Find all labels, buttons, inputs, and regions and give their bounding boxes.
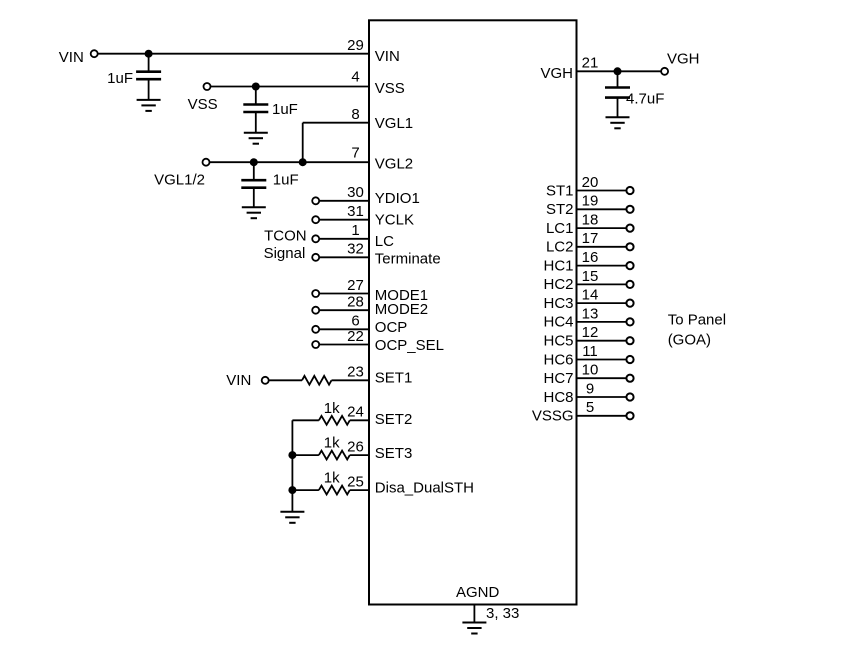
svg-text:19: 19 <box>582 193 599 210</box>
wire AGND to ground <box>473 605 475 623</box>
svg-text:10: 10 <box>582 362 599 379</box>
svg-text:YCLK: YCLK <box>375 212 414 229</box>
pin Terminate label <box>375 251 441 268</box>
label (GOA) <box>668 331 711 348</box>
svg-text:(GOA): (GOA) <box>668 331 711 348</box>
node VGL1/2 terminal <box>203 159 210 166</box>
pin SET1 label <box>375 369 413 386</box>
svg-text:1k: 1k <box>324 470 340 487</box>
pin 25 number <box>347 474 364 491</box>
ground C2 <box>244 133 268 144</box>
svg-text:HC6: HC6 <box>543 351 573 368</box>
wire bus to R3 <box>292 454 319 456</box>
pin VSSG label <box>532 408 574 425</box>
wire pin 10 <box>577 377 627 379</box>
svg-text:4: 4 <box>351 69 359 86</box>
svg-text:30: 30 <box>347 184 364 201</box>
resistor R4 1k <box>319 486 350 495</box>
wire VSS to pin 4 <box>211 86 369 88</box>
svg-text:VGL2: VGL2 <box>375 155 413 172</box>
label VSS <box>188 96 218 113</box>
wire pin 19 <box>577 208 627 210</box>
node pin 22 terminal <box>312 341 319 348</box>
label VGH output <box>667 51 700 68</box>
label To Panel <box>668 312 726 329</box>
pin 3,33 number <box>486 605 519 622</box>
svg-text:HC2: HC2 <box>543 276 573 293</box>
svg-text:HC3: HC3 <box>543 295 573 312</box>
svg-text:ST2: ST2 <box>546 201 574 218</box>
pin 13 number <box>582 305 599 322</box>
svg-text:VGL1/2: VGL1/2 <box>154 172 205 189</box>
svg-text:VGH: VGH <box>667 51 700 68</box>
resistor R1 <box>302 376 332 385</box>
junction VGH node <box>614 67 622 75</box>
pin 12 number <box>582 324 599 341</box>
pin 15 number <box>582 268 599 285</box>
wire pin 30 <box>319 200 369 202</box>
wire pin 6 <box>319 328 369 330</box>
label 1uF C1 <box>107 70 133 87</box>
node VGH terminal <box>661 68 668 75</box>
svg-text:To Panel: To Panel <box>668 312 726 329</box>
pin VSS label <box>375 80 405 97</box>
pin AGND label <box>456 584 500 601</box>
node pin 10 terminal <box>626 375 633 382</box>
wire pin 14 <box>577 302 627 304</box>
pin MODE2 label <box>375 301 428 318</box>
svg-text:4.7uF: 4.7uF <box>626 91 664 108</box>
pin 20 number <box>582 174 599 191</box>
svg-text:1uF: 1uF <box>273 172 299 189</box>
wire pin 17 <box>577 246 627 248</box>
wire pin 13 <box>577 321 627 323</box>
pin ST1 label <box>546 182 574 199</box>
pin 19 number <box>582 193 599 210</box>
svg-text:HC5: HC5 <box>543 333 573 350</box>
wire pin 21 VGH <box>577 70 661 72</box>
pin MODE1 label <box>375 287 428 304</box>
pin 21 number <box>582 55 599 72</box>
wire pin 8 VGL1 <box>303 122 369 124</box>
wire bus to R2 <box>292 419 319 421</box>
svg-text:1uF: 1uF <box>107 70 133 87</box>
pin VIN label <box>375 48 400 65</box>
label 4.7uF C4 <box>626 91 664 108</box>
pin 5 number <box>586 399 594 416</box>
pin 14 number <box>582 287 599 304</box>
junction VSS node <box>252 83 260 91</box>
svg-text:VIN: VIN <box>59 49 84 66</box>
node pin 17 terminal <box>626 243 633 250</box>
svg-text:VSSG: VSSG <box>532 408 574 425</box>
pin 1 number <box>351 222 359 239</box>
pin LC label <box>375 233 394 250</box>
capacitor C1 1uF <box>136 54 161 79</box>
wire pin 12 <box>577 340 627 342</box>
label VIN <box>59 49 84 66</box>
svg-text:VIN: VIN <box>375 48 400 65</box>
node pin 18 terminal <box>626 225 633 232</box>
pin 9 number <box>586 380 594 397</box>
svg-text:5: 5 <box>586 399 594 416</box>
svg-text:21: 21 <box>582 55 599 72</box>
svg-text:13: 13 <box>582 305 599 322</box>
svg-text:29: 29 <box>347 37 364 54</box>
node pin 28 terminal <box>312 307 319 314</box>
svg-text:9: 9 <box>586 380 594 397</box>
pin 27 number <box>347 277 364 294</box>
node pin 30 terminal <box>312 197 319 204</box>
label TCON <box>264 227 307 244</box>
label 1k R4 <box>324 470 340 487</box>
wire pin 28 <box>319 309 369 311</box>
resistor R3 1k <box>319 451 350 460</box>
svg-text:VGH: VGH <box>540 65 573 82</box>
pin 11 number <box>582 343 598 360</box>
junction VGL1 tie node <box>299 158 307 166</box>
svg-text:20: 20 <box>582 174 599 191</box>
node pin 11 terminal <box>626 356 633 363</box>
svg-text:SET1: SET1 <box>375 369 413 386</box>
svg-text:VIN: VIN <box>226 372 251 389</box>
wire pin 16 <box>577 265 627 267</box>
pin 7 number <box>351 144 359 161</box>
pin 10 number <box>582 362 599 379</box>
wire bus to R4 <box>292 489 319 491</box>
pin VGH label <box>540 65 573 82</box>
svg-text:AGND: AGND <box>456 584 500 601</box>
ground C4 <box>606 117 630 128</box>
pin 22 number <box>347 328 364 345</box>
wire pin 11 <box>577 359 627 361</box>
wire R1 to pin 23 <box>332 379 370 381</box>
wire pin 22 <box>319 344 369 346</box>
pin 29 number <box>347 37 364 54</box>
pin 16 number <box>582 249 599 266</box>
pin 28 number <box>347 294 364 311</box>
wire pin 5 <box>577 415 627 417</box>
svg-text:26: 26 <box>347 439 364 456</box>
pin 23 number <box>347 364 364 381</box>
label 1k R3 <box>324 435 340 452</box>
wire VIN to pin 29 <box>98 53 369 55</box>
junction bus SET3 <box>288 451 296 459</box>
svg-text:LC: LC <box>375 233 394 250</box>
wire R4 to pin 25 <box>350 489 369 491</box>
capacitor C4 4.7uF <box>605 71 630 97</box>
node VSS terminal <box>204 83 211 90</box>
pin YCLK label <box>375 212 414 229</box>
pin 32 number <box>347 241 364 258</box>
svg-text:LC1: LC1 <box>546 220 574 237</box>
capacitor C3 1uF <box>241 162 266 188</box>
svg-text:23: 23 <box>347 364 364 381</box>
svg-text:27: 27 <box>347 277 364 294</box>
svg-text:1k: 1k <box>324 435 340 452</box>
svg-text:1: 1 <box>351 222 359 239</box>
junction bus Disa_DualSTH <box>288 486 296 494</box>
pin VGL2 label <box>375 155 413 172</box>
pin 17 number <box>582 230 599 247</box>
wire C1 to ground <box>148 79 150 100</box>
wire C2 to ground <box>255 112 257 133</box>
label VIN SET1 <box>226 372 251 389</box>
pin SET2 label <box>375 411 413 428</box>
svg-text:LC2: LC2 <box>546 239 574 256</box>
wire VGL2 to pin 7 <box>210 161 369 163</box>
svg-text:8: 8 <box>351 106 359 123</box>
wire C4 to ground <box>617 98 619 118</box>
pin 24 number <box>347 404 364 421</box>
node pin 13 terminal <box>626 318 633 325</box>
wire pin 9 <box>577 396 627 398</box>
pin 30 number <box>347 184 364 201</box>
node pin 5 terminal <box>626 412 633 419</box>
pin HC5 label <box>543 333 573 350</box>
svg-text:Disa_DualSTH: Disa_DualSTH <box>375 480 474 497</box>
wire R3 to pin 26 <box>350 454 369 456</box>
wire pin 20 <box>577 190 627 192</box>
pin 26 number <box>347 439 364 456</box>
svg-text:32: 32 <box>347 241 364 258</box>
pin HC3 label <box>543 295 573 312</box>
svg-text:7: 7 <box>351 144 359 161</box>
node pin 31 terminal <box>312 216 319 223</box>
node pin 1 terminal <box>312 235 319 242</box>
wire pin 1 <box>319 238 369 240</box>
ground C3 <box>242 207 266 218</box>
pin HC7 label <box>543 370 573 387</box>
svg-text:14: 14 <box>582 287 599 304</box>
node pin 20 terminal <box>626 187 633 194</box>
node pin 9 terminal <box>626 393 633 400</box>
label 1uF C2 <box>272 101 298 118</box>
svg-text:22: 22 <box>347 328 364 345</box>
ground resistor bus <box>280 512 304 523</box>
label Signal <box>264 245 306 262</box>
pin LC1 label <box>546 220 574 237</box>
node pin 19 terminal <box>626 206 633 213</box>
svg-text:SET3: SET3 <box>375 445 413 462</box>
pin Disa_DualSTH label <box>375 480 474 497</box>
pin HC2 label <box>543 276 573 293</box>
pin HC8 label <box>543 389 573 406</box>
svg-text:HC8: HC8 <box>543 389 573 406</box>
svg-text:18: 18 <box>582 212 599 229</box>
pin HC1 label <box>543 257 573 274</box>
wire pin 18 <box>577 227 627 229</box>
pin LC2 label <box>546 239 574 256</box>
pin ST2 label <box>546 201 574 218</box>
svg-text:11: 11 <box>582 343 598 360</box>
node pin 14 terminal <box>626 300 633 307</box>
wire C3 to ground <box>253 188 255 208</box>
svg-text:TCON: TCON <box>264 227 307 244</box>
pin 8 number <box>351 106 359 123</box>
junction VIN node <box>145 50 153 58</box>
svg-text:Terminate: Terminate <box>375 251 441 268</box>
pin HC6 label <box>543 351 573 368</box>
svg-text:15: 15 <box>582 268 599 285</box>
svg-text:SET2: SET2 <box>375 411 413 428</box>
node pin 6 terminal <box>312 326 319 333</box>
wire pin 27 <box>319 293 369 295</box>
pin OCP_SEL label <box>375 337 444 354</box>
svg-text:1uF: 1uF <box>272 101 298 118</box>
wire pin 15 <box>577 283 627 285</box>
wire pin 31 <box>319 219 369 221</box>
node pin 27 terminal <box>312 290 319 297</box>
pin 31 number <box>347 203 364 220</box>
node pin 32 terminal <box>312 254 319 261</box>
svg-text:HC7: HC7 <box>543 370 573 387</box>
label 1uF C3 <box>273 172 299 189</box>
node pin 15 terminal <box>626 281 633 288</box>
pin 4 number <box>351 69 359 86</box>
svg-text:25: 25 <box>347 474 364 491</box>
svg-text:3, 33: 3, 33 <box>486 605 519 622</box>
pin YDIO1 label <box>375 190 420 207</box>
capacitor C2 1uF <box>243 87 268 113</box>
svg-text:17: 17 <box>582 230 599 247</box>
ground C1 <box>137 100 161 111</box>
svg-text:1k: 1k <box>324 400 340 417</box>
pin OCP label <box>375 319 408 336</box>
pin SET3 label <box>375 445 413 462</box>
svg-text:OCP: OCP <box>375 319 408 336</box>
resistor R2 1k <box>319 416 350 425</box>
svg-text:Signal: Signal <box>264 245 306 262</box>
ground AGND <box>462 623 486 634</box>
label 1k R2 <box>324 400 340 417</box>
wire VIN to R1 <box>269 379 302 381</box>
wire VGL1 to VGL2 node <box>302 123 304 163</box>
label VGL1/2 <box>154 172 205 189</box>
node pin 16 terminal <box>626 262 633 269</box>
node VIN terminal <box>91 50 98 57</box>
svg-text:16: 16 <box>582 249 599 266</box>
svg-text:VGL1: VGL1 <box>375 115 413 132</box>
svg-text:VSS: VSS <box>375 80 405 97</box>
svg-text:12: 12 <box>582 324 599 341</box>
svg-text:OCP_SEL: OCP_SEL <box>375 337 444 354</box>
pin HC4 label <box>543 314 573 331</box>
wire resistor bus vertical <box>291 420 293 490</box>
svg-text:HC1: HC1 <box>543 257 573 274</box>
node pin 12 terminal <box>626 337 633 344</box>
svg-text:24: 24 <box>347 404 364 421</box>
pin VGL1 label <box>375 115 413 132</box>
svg-text:ST1: ST1 <box>546 182 574 199</box>
svg-text:MODE2: MODE2 <box>375 301 428 318</box>
wire bus to ground <box>291 490 293 512</box>
svg-text:28: 28 <box>347 294 364 311</box>
junction VGL2 cap node <box>250 158 258 166</box>
svg-text:31: 31 <box>347 203 364 220</box>
node VIN SET1 terminal <box>262 377 269 384</box>
pin 6 number <box>351 313 359 330</box>
op-amp U1 IC body <box>369 20 577 604</box>
svg-text:YDIO1: YDIO1 <box>375 190 420 207</box>
wire R2 to pin 24 <box>350 419 369 421</box>
svg-text:HC4: HC4 <box>543 314 573 331</box>
wire pin 32 <box>319 256 369 258</box>
svg-text:VSS: VSS <box>188 96 218 113</box>
pin 18 number <box>582 212 599 229</box>
